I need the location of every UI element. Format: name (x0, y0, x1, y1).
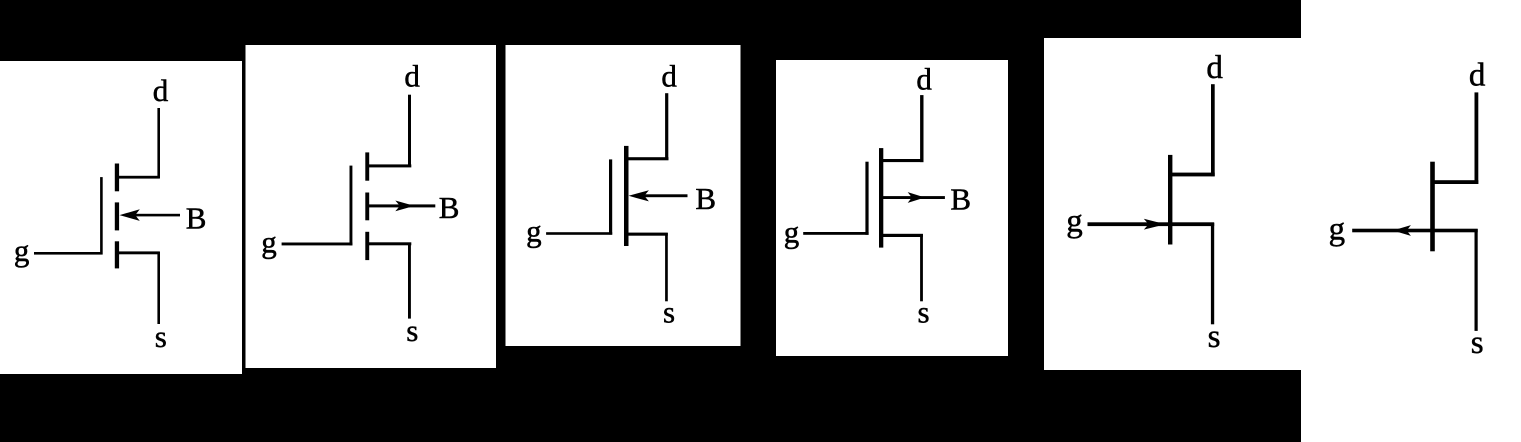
svg-text:d: d (153, 73, 169, 108)
panel 5 white card (1044, 38, 1301, 370)
M4 drain wire vertical (920, 95, 923, 162)
M3 continuous channel bar (624, 146, 629, 246)
M4 source wire horizontal (882, 234, 923, 237)
M2 bulk wire with arrowhead pointing right (368, 204, 435, 207)
M4 continuous channel bar (879, 148, 883, 248)
svg-text:B: B (186, 200, 207, 235)
svg-text:g: g (14, 233, 30, 268)
M3 gate wire horizontal (546, 232, 612, 235)
M3 gate electrode plate (609, 159, 612, 234)
svg-text:d: d (1469, 57, 1486, 93)
M6 source wire horizontal (1433, 229, 1478, 233)
M2 channel dash middle (bulk segment) (365, 193, 369, 221)
M3 source wire horizontal (627, 233, 668, 236)
M4 gate wire horizontal (803, 232, 868, 235)
svg-text:s: s (155, 319, 167, 354)
M1 gate electrode plate (100, 177, 103, 254)
M5 source wire horizontal (1170, 222, 1214, 226)
svg-text:s: s (918, 294, 930, 329)
svg-text:s: s (1471, 325, 1484, 361)
M1 drain wire horizontal (118, 176, 160, 179)
svg-text:d: d (661, 59, 677, 94)
M5 drain wire horizontal (1170, 173, 1215, 177)
M2 channel dash bottom (source segment) (365, 232, 369, 260)
M2 source wire horizontal (368, 242, 411, 245)
M1 gate wire horizontal (34, 252, 103, 255)
M4 gate electrode plate (865, 162, 868, 235)
transistor M5: simplified NMOS (3-terminal) (1066, 50, 1223, 355)
M6 gate wire with arrowhead pointing left toward gate (1352, 229, 1432, 233)
svg-text:B: B (439, 190, 460, 225)
svg-text:g: g (526, 213, 542, 248)
M3 drain wire horizontal (627, 157, 669, 160)
M6 drain wire horizontal (1433, 180, 1478, 184)
M2 gate wire horizontal (282, 243, 353, 246)
M2 source wire vertical (408, 243, 411, 319)
M3 drain wire vertical (665, 93, 668, 159)
panel 3 white card (506, 45, 741, 346)
transistor M6: simplified PMOS (3-terminal) (1329, 57, 1486, 361)
M4 drain wire horizontal (882, 159, 924, 162)
svg-text:g: g (1066, 204, 1083, 240)
M1 source wire horizontal (118, 251, 160, 254)
panel 4 white card (776, 60, 1008, 356)
M6 source wire vertical (1475, 229, 1478, 331)
M1 source wire vertical (157, 252, 160, 324)
M1 drain wire vertical (157, 108, 160, 178)
transistor M1: 4-terminal enhancement NMOS (14, 73, 207, 354)
M1 bulk wire with arrowhead pointing left (130, 214, 180, 217)
transistor M4: 4-terminal depletion PMOS (784, 62, 971, 330)
M6 channel bar (1430, 162, 1435, 252)
M3 bulk wire with arrowhead pointing left (639, 194, 688, 197)
panel 6 white card (1301, 0, 1521, 442)
M1 channel dash top (drain segment) (115, 164, 119, 192)
svg-text:s: s (1208, 319, 1221, 355)
M5 gate wire with arrowhead pointing right into channel (1088, 222, 1169, 226)
M6 drain wire vertical (1475, 92, 1479, 184)
svg-text:B: B (950, 181, 971, 216)
M1 channel dash middle (bulk segment) (115, 202, 119, 230)
M5 channel bar (1168, 155, 1172, 245)
M2 gate electrode plate (350, 166, 353, 246)
svg-text:s: s (406, 313, 418, 348)
panel 2 white card (246, 45, 497, 368)
panel 1 white card (0, 61, 242, 374)
svg-text:g: g (1329, 211, 1346, 247)
M5 source wire vertical (1211, 223, 1214, 324)
transistor M2: 4-terminal enhancement PMOS (261, 59, 459, 348)
M4 source wire vertical (920, 234, 923, 301)
svg-text:g: g (261, 225, 277, 260)
M3 source wire vertical (665, 233, 668, 301)
M1 channel dash bottom (source segment) (115, 241, 119, 268)
M2 channel dash top (drain segment) (365, 152, 369, 180)
svg-text:d: d (1206, 50, 1223, 86)
M5 drain wire vertical (1211, 84, 1215, 176)
svg-text:B: B (695, 181, 716, 216)
M4 bulk wire with arrowhead pointing right (882, 196, 945, 199)
svg-text:d: d (404, 59, 420, 94)
svg-text:g: g (784, 214, 800, 249)
M2 drain wire horizontal (368, 164, 411, 167)
svg-text:d: d (916, 62, 932, 97)
transistor M3: 4-terminal depletion NMOS (526, 59, 716, 330)
svg-text:s: s (663, 294, 675, 329)
M2 drain wire vertical (408, 95, 411, 166)
